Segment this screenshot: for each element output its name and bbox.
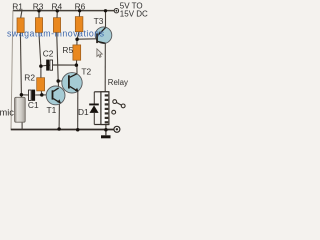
node B: R5 bottom/C2/T2 collector [75, 63, 79, 67]
wire: R6 bottom to node A [77, 32, 79, 40]
svg-text:R1: R1 [12, 2, 23, 12]
wire: mic node to C1 left [21, 94, 28, 96]
svg-text:R2: R2 [24, 73, 35, 83]
svg-text:D1: D1 [78, 107, 89, 117]
resistor R1 [17, 18, 24, 33]
node: T2 base/T1 collector [56, 79, 60, 83]
wire: T2 base from T1 collector node [58, 80, 68, 82]
resistor R6 [75, 17, 83, 32]
transistor T3 [95, 27, 112, 44]
wire: T1 base lead [42, 94, 52, 96]
wire: R1 bottom to mic node [20, 33, 21, 95]
wire: node B down to T2 collector [76, 65, 78, 74]
svg-text:15V DC: 15V DC [120, 9, 148, 18]
relay contacts [112, 100, 125, 114]
wire: T1 emitter to ground rail [58, 103, 60, 129]
svg-text:T1: T1 [47, 105, 57, 115]
resistor R5 [73, 45, 81, 60]
wire: R1 top stub [21, 11, 22, 18]
cursor pointer [97, 49, 102, 58]
supply terminal top [114, 9, 118, 13]
svg-text:C1: C1 [28, 100, 39, 110]
node A: R6/R5/T3 base [75, 37, 79, 41]
node: T1 base/R2/C1 [40, 93, 44, 97]
svg-text:T3: T3 [94, 16, 104, 26]
svg-text:R3: R3 [33, 2, 44, 12]
transistor T1 [46, 86, 65, 105]
wire: R5 bottom to node B [75, 60, 77, 65]
svg-text:R6: R6 [75, 1, 86, 11]
node: rail junction R6 [78, 9, 81, 12]
wire: T3 base from node A [77, 38, 96, 40]
wire: bottom ground rail [11, 129, 114, 131]
resistor R3 [35, 18, 42, 33]
wire: left vertical rail [11, 11, 13, 130]
diode D1 [89, 92, 99, 125]
svg-text:mic: mic [0, 108, 14, 118]
wire: T2 emitter to ground rail [77, 92, 79, 130]
wire: C2 horizontal link [41, 65, 76, 66]
wire: R4 bottom down to T1 collector [57, 32, 59, 88]
wire: R3 bottom to C2 node [39, 32, 41, 66]
resistor R4 [53, 18, 60, 33]
output terminal bottom [114, 126, 120, 132]
node: rail junction R4 [56, 9, 59, 12]
wire: R4 top stub [56, 11, 58, 18]
node: C2 left junction [39, 64, 43, 68]
svg-text:C2: C2 [43, 49, 54, 59]
node: T2 emitter at rail [76, 128, 80, 132]
wire: R3 top stub [38, 11, 40, 18]
mic electret microphone [15, 97, 26, 122]
ground [101, 130, 111, 139]
wire: mic top stub [21, 95, 23, 98]
svg-text:Relay: Relay [108, 78, 128, 87]
wire: T3 emitter to supply rail [105, 11, 107, 28]
node: mic/C1/R1 [20, 93, 24, 97]
node: rail junction R3 [37, 9, 40, 12]
svg-text:T2: T2 [81, 66, 91, 76]
wire: R2 bottom to T1 base node [40, 91, 43, 95]
wire: R6 top stub [78, 11, 80, 17]
capacitor C1 [29, 90, 36, 101]
wire: C1 right to T1 base node [35, 94, 42, 96]
wire: R2 top from C2 node [40, 66, 42, 78]
svg-text:R4: R4 [52, 2, 63, 12]
wire: node A to R5 top [76, 39, 78, 45]
wire: top positive supply rail [13, 10, 114, 12]
capacitor C2 [46, 60, 52, 71]
svg-text:R5: R5 [62, 45, 73, 55]
relay coil box [94, 92, 109, 125]
node: T1 emitter at rail [57, 127, 61, 131]
node: relay stub at rail [104, 128, 108, 132]
node: rail junction T3 emitter [104, 9, 107, 12]
wire: mic bottom stub [21, 122, 23, 129]
wire: relay bottom stub to rail [105, 125, 107, 130]
resistor R2 [37, 78, 45, 91]
transistor T2 [62, 73, 82, 93]
wire: T3 collector down to relay [104, 43, 106, 92]
